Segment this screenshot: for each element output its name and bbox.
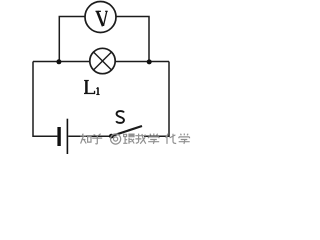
wire: left branch of middle rail to lamp: [33, 61, 90, 63]
watermark char 知: [80, 134, 91, 144]
node B: junction dot right: [147, 59, 152, 64]
watermark char 化: [166, 134, 177, 144]
watermark char 学 (second): [179, 134, 190, 144]
label S: [116, 111, 124, 123]
watermark char 学: [148, 134, 159, 144]
watermark char 跟: [123, 134, 134, 144]
wire: switch right contact to right rail corner: [144, 135, 169, 137]
watermark char 我: [135, 134, 146, 144]
wire: voltmeter right lead (horizontal then down to node B): [116, 17, 149, 62]
node A: junction dot left: [56, 59, 61, 64]
wire: right rail down: [168, 62, 170, 138]
wire: left rail down and bottom-left run to battery: [33, 62, 57, 137]
battery: positive plate (long thin): [67, 119, 69, 154]
wire: right branch of middle rail from lamp: [115, 61, 169, 63]
wire: battery to switch pivot: [68, 135, 110, 137]
lamp L1 (circle with X): [90, 48, 115, 73]
switch S: pivot dot: [109, 134, 114, 139]
label L1: [84, 81, 100, 95]
wire: voltmeter left lead (horizontal then down to node A): [59, 17, 85, 62]
voltmeter V (meter circle): [85, 2, 116, 33]
watermark char 乎: [92, 134, 102, 144]
battery: negative plate (short thick): [57, 127, 60, 146]
switch S: lever arm (open): [111, 126, 142, 136]
watermark: gray text 知乎 @跟我学化学 (drawn strokes): [80, 134, 190, 145]
watermark char ＠: [111, 134, 121, 144]
